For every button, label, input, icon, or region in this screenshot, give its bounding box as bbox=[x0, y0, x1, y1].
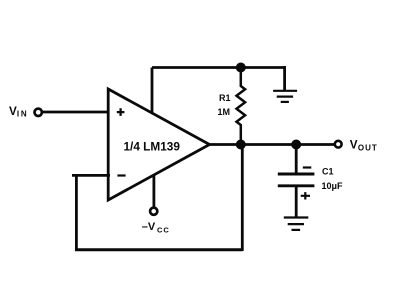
wire left vertical of feedback loop bbox=[75, 174, 78, 250]
capacitor C1 bottom lead bbox=[295, 186, 298, 218]
ground G2 bbox=[284, 218, 309, 230]
node -VCC terminal bbox=[150, 208, 157, 215]
svg-text:CC: CC bbox=[157, 225, 170, 234]
svg-text:10μF: 10μF bbox=[322, 181, 344, 191]
wire bottom of feedback loop bbox=[75, 248, 243, 251]
label VOUT bbox=[350, 139, 378, 153]
node VIN terminal bbox=[35, 109, 42, 116]
capacitor C1 top lead bbox=[295, 145, 298, 175]
wire top horizontal bbox=[152, 66, 285, 69]
wire right vertical up to output node bbox=[241, 145, 244, 252]
label R1 1M bbox=[218, 93, 231, 117]
label -VCC bbox=[142, 221, 170, 234]
plus input symbol bbox=[117, 108, 125, 116]
capacitor C1 top plate bbox=[278, 173, 315, 176]
pin -VCC lead bbox=[152, 175, 155, 207]
wire minus input left bbox=[72, 174, 110, 177]
svg-text:R1: R1 bbox=[219, 93, 231, 103]
op-amp U1 triangle bbox=[108, 89, 209, 200]
svg-text:OUT: OUT bbox=[358, 144, 378, 153]
svg-text:1M: 1M bbox=[218, 107, 231, 117]
wire drop to ground G1 bbox=[283, 66, 286, 91]
ground G1 bbox=[273, 91, 297, 102]
label VIN bbox=[9, 105, 27, 118]
node VOUT terminal bbox=[335, 141, 342, 148]
node junction capacitor tap bbox=[291, 140, 301, 150]
svg-text:C1: C1 bbox=[322, 166, 334, 176]
svg-text:V: V bbox=[9, 105, 17, 118]
node junction top (R1 top) bbox=[236, 63, 246, 73]
svg-text:1/4 LM139: 1/4 LM139 bbox=[124, 139, 181, 153]
wire top feedback vertical to hypotenuse bbox=[151, 68, 154, 113]
wire VIN to op-amp + input bbox=[42, 111, 111, 114]
resistor R1 bbox=[237, 68, 246, 145]
svg-text:N: N bbox=[21, 109, 27, 118]
capacitor C1 minus polarity bbox=[303, 166, 312, 168]
svg-text:V: V bbox=[350, 139, 358, 152]
capacitor C1 plus polarity bbox=[301, 192, 310, 199]
svg-text:I: I bbox=[17, 109, 19, 118]
wire output from apex to VOUT bbox=[210, 143, 335, 146]
node junction output/feedback bbox=[236, 140, 246, 150]
minus input symbol bbox=[117, 174, 125, 176]
svg-text:–V: –V bbox=[142, 221, 156, 233]
capacitor C1 bottom plate bbox=[278, 184, 315, 187]
